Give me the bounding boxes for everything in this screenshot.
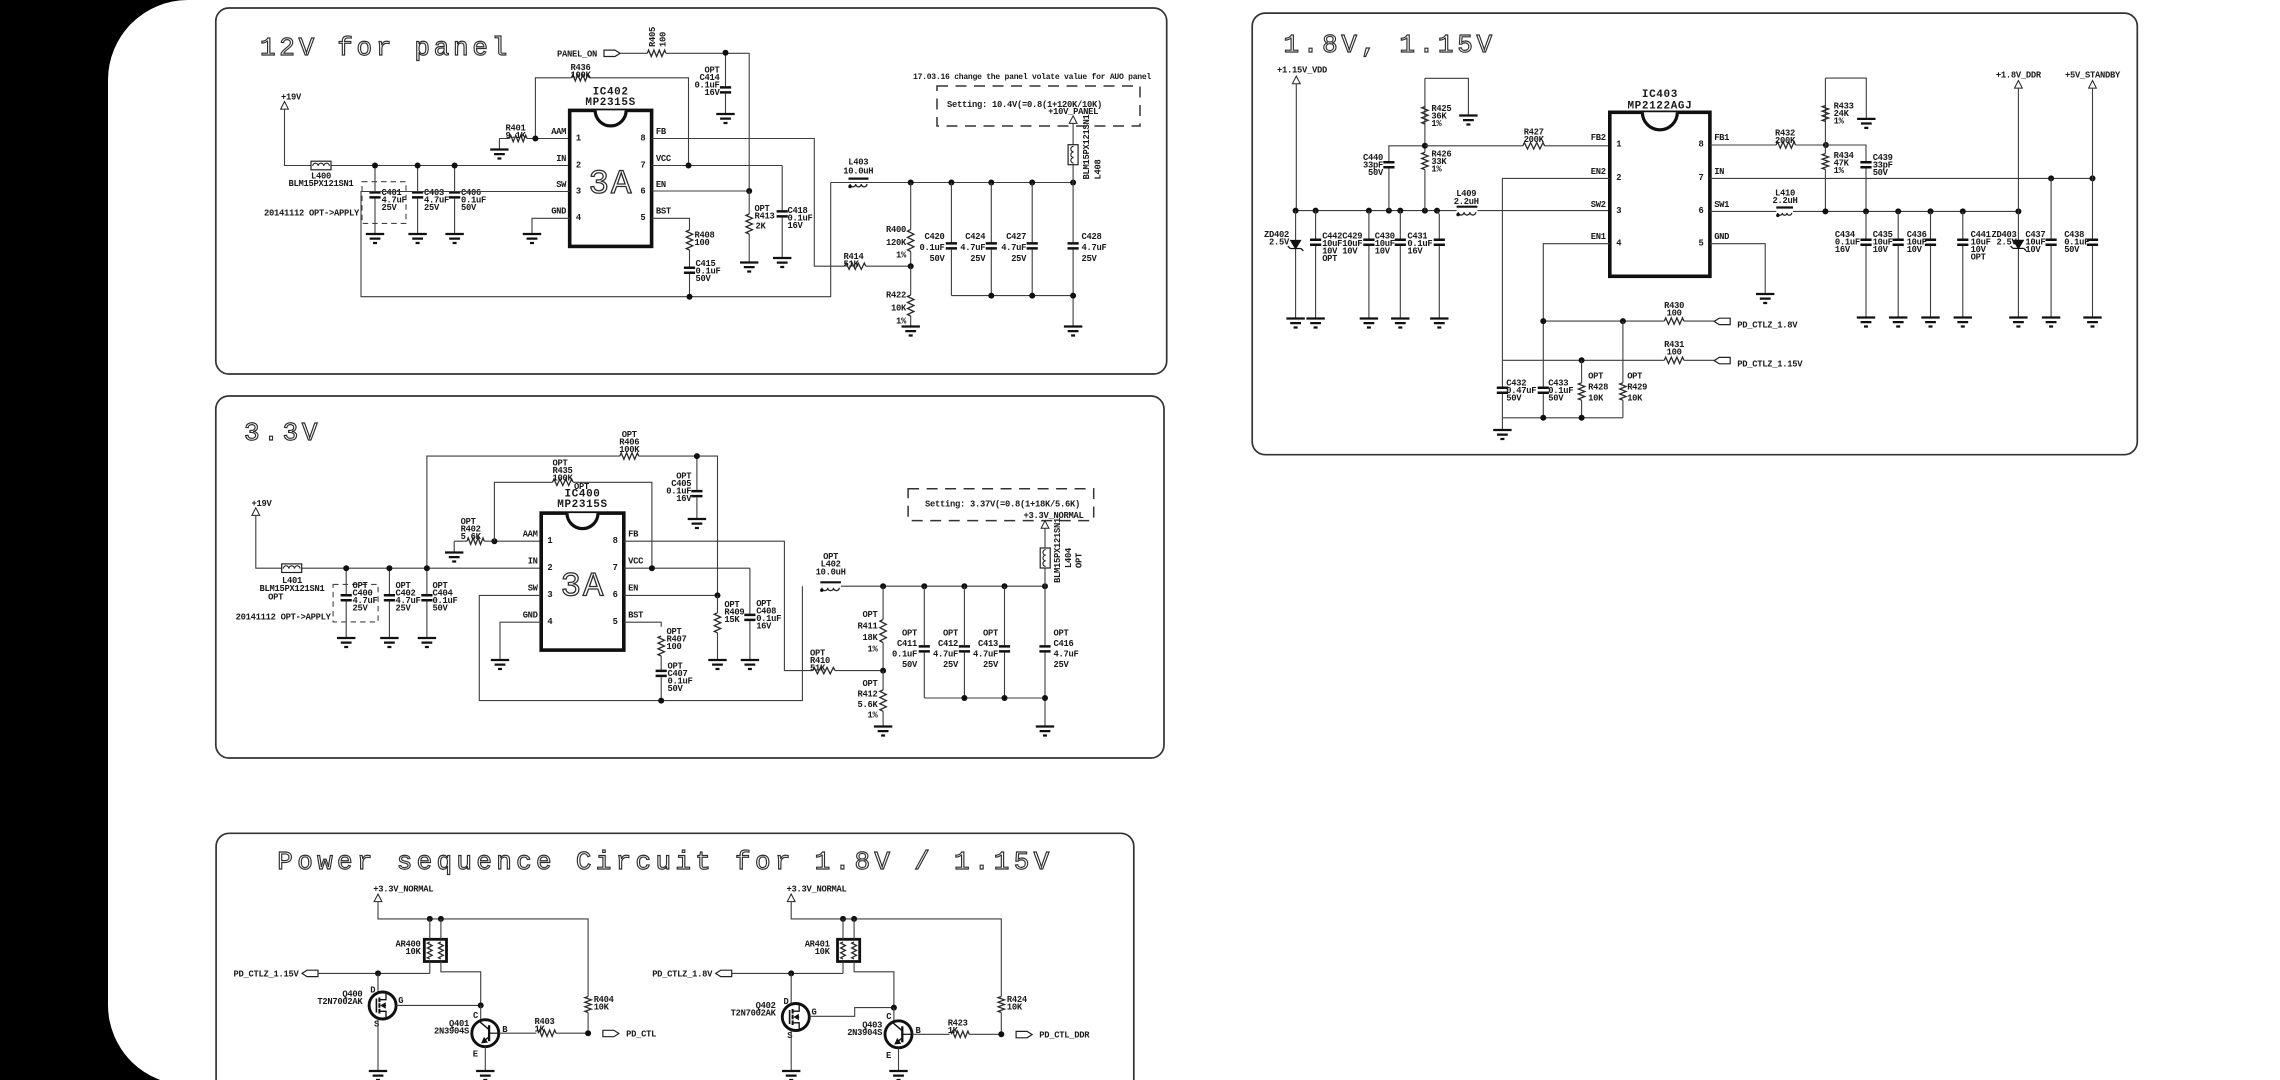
resistor R413 2K (OPT) EN pulldown	[748, 191, 750, 234]
svg-text:C412: C412	[938, 639, 958, 649]
capacitor C404 0.1uF (OPT)	[426, 568, 428, 638]
svg-text:SW2: SW2	[1591, 200, 1606, 210]
ground at IC400 GND	[491, 660, 509, 669]
capacitor C414 0.1uF (OPT)	[725, 53, 727, 114]
svg-text:C427: C427	[1006, 232, 1026, 242]
capacitor C433 0.1uF EN1 delay	[1542, 387, 1544, 418]
svg-text:16V: 16V	[1407, 246, 1423, 256]
svg-text:25V: 25V	[424, 203, 440, 213]
junction PANEL_ON/C414	[723, 50, 729, 56]
svg-text:50V: 50V	[2064, 245, 2080, 255]
svg-text:1%: 1%	[1834, 166, 1845, 176]
svg-text:2N3904S: 2N3904S	[847, 1028, 882, 1038]
svg-text:4.7uF: 4.7uF	[1001, 243, 1026, 253]
svg-text:16V: 16V	[676, 494, 692, 504]
svg-text:PD_CTL_DDR: PD_CTL_DDR	[1039, 1031, 1090, 1041]
svg-text:BLM15PX121SN1: BLM15PX121SN1	[1053, 518, 1063, 583]
net connector PD_CTLZ_1.8V	[716, 970, 732, 976]
svg-text:100: 100	[667, 642, 682, 652]
ground at Q400 source	[369, 1071, 387, 1080]
ferrite bead L400	[311, 161, 331, 170]
svg-text:OPT: OPT	[1627, 372, 1643, 382]
resistor R425 36K 1% FB2 upper to gnd loop	[1424, 78, 1426, 146]
resistor R431 100	[1664, 357, 1684, 363]
svg-text:25V: 25V	[396, 604, 412, 614]
svg-text:4.7uF: 4.7uF	[960, 243, 985, 253]
svg-text:3: 3	[576, 186, 581, 196]
junction BST/SW IC400	[658, 698, 664, 704]
svg-text:10V: 10V	[1873, 245, 1889, 255]
svg-text:R429: R429	[1627, 383, 1647, 393]
svg-text:OPT: OPT	[943, 629, 959, 639]
junction feedback tap	[908, 263, 914, 269]
svg-text:50V: 50V	[1873, 168, 1889, 178]
junction dots input rail 19V	[372, 163, 378, 169]
capacitor C436 10uF	[1930, 211, 1932, 317]
svg-text:PD_CTLZ_1.8V: PD_CTLZ_1.8V	[652, 970, 713, 980]
svg-text:1.8V, 1.15V: 1.8V, 1.15V	[1284, 30, 1496, 60]
svg-text:20141112 OPT->APPLY: 20141112 OPT->APPLY	[236, 613, 332, 623]
capacitor C411 0.1uF (OPT)	[923, 586, 925, 698]
IC402 MP2315S buck regulator	[570, 110, 652, 246]
svg-text:5: 5	[613, 617, 618, 627]
svg-text:10K: 10K	[406, 947, 422, 957]
junction EN	[746, 188, 752, 194]
wire PD_CTLZ_1.8V line	[732, 972, 843, 974]
svg-text:100K: 100K	[553, 473, 574, 483]
capacitor C401 (OPT)	[362, 182, 406, 224]
transistor Q400 T2N7002AK (N-MOSFET)	[377, 973, 379, 992]
svg-text:10V: 10V	[1375, 246, 1391, 256]
svg-text:50V: 50V	[1506, 394, 1522, 404]
resistor R400 120K 1% upper divider	[910, 183, 912, 267]
capacitor C429 10uF	[1368, 211, 1370, 319]
svg-text:T2N7002AK: T2N7002AK	[317, 997, 363, 1007]
svg-text:+1.8V_DDR: +1.8V_DDR	[1996, 71, 2042, 81]
junction dots 1.8V rail	[1822, 208, 1828, 214]
svg-text:2: 2	[547, 563, 552, 573]
svg-text:100K: 100K	[619, 445, 640, 455]
svg-text:100K: 100K	[571, 71, 592, 81]
svg-text:2N3904S: 2N3904S	[434, 1027, 469, 1037]
svg-text:BLM15PX121SN1: BLM15PX121SN1	[1082, 115, 1092, 180]
svg-text:EN: EN	[628, 584, 638, 594]
wire 3.3V cap ground rail	[924, 698, 1045, 727]
wire AAM pin stub	[535, 138, 569, 140]
wire EN stub IC400	[624, 594, 718, 596]
wire FB net to divider	[652, 139, 845, 267]
net connector PD_CTLZ_1.8V	[1714, 318, 1730, 324]
IC400 MP2315S buck regulator	[541, 513, 624, 650]
inductor L402 10.0uH (OPT)	[820, 581, 841, 583]
resistor R403 1K base	[499, 1032, 537, 1034]
svg-text:4.7uF: 4.7uF	[1054, 650, 1079, 660]
wire IN net from +5V standby	[1710, 177, 2093, 179]
svg-text:25V: 25V	[382, 203, 398, 213]
svg-text:G: G	[398, 996, 403, 1006]
svg-text:10K: 10K	[815, 947, 831, 957]
wire EN2 net	[1502, 178, 1609, 360]
junction drain (right)	[788, 970, 794, 976]
svg-text:2K: 2K	[756, 222, 767, 232]
svg-text:3: 3	[1616, 206, 1621, 216]
svg-text:E: E	[886, 1051, 891, 1061]
net connector PANEL_ON	[604, 50, 620, 56]
capacitor C438 0.1uF standby decoupling	[2092, 178, 2094, 317]
resistor R432 200K FB1 series	[1776, 142, 1795, 148]
svg-text:8: 8	[1699, 139, 1704, 149]
svg-text:4.7uF: 4.7uF	[973, 650, 998, 660]
svg-text:100: 100	[1667, 309, 1682, 319]
svg-text:25V: 25V	[1082, 254, 1098, 264]
power flag +3.3V_NORMAL	[1041, 521, 1049, 529]
svg-text:5.6K: 5.6K	[858, 700, 879, 710]
ground at R422	[902, 327, 920, 336]
resistor R411 18K 1% (OPT) upper divider	[882, 586, 884, 670]
wire AR leads (left)	[430, 919, 441, 974]
svg-text:1%: 1%	[896, 251, 907, 261]
svg-text:2: 2	[1616, 173, 1621, 183]
svg-text:1K: 1K	[948, 1026, 959, 1036]
svg-text:C416: C416	[1054, 639, 1074, 649]
svg-text:16V: 16V	[1835, 245, 1851, 255]
wire 3.3V rail (right)	[791, 902, 1001, 997]
inductor L409 2.2uH	[1457, 206, 1478, 208]
resistor R406 100K (OPT) enable divider top	[427, 456, 718, 595]
svg-text:OPT: OPT	[902, 629, 918, 639]
junction dot EN2 line	[1579, 357, 1585, 363]
svg-text:16V: 16V	[788, 221, 804, 231]
capacitor C432 0.47uF EN2 delay	[1501, 360, 1503, 418]
resistor R414 51K feedback	[845, 263, 866, 269]
wire AR leads (right)	[843, 919, 854, 974]
wire SW net IC400	[479, 586, 802, 700]
svg-text:20141112 OPT->APPLY: 20141112 OPT->APPLY	[264, 209, 360, 219]
ground at R433	[1857, 119, 1875, 128]
wire 1.8V output rail	[1710, 210, 2019, 212]
wire 10V panel output rail	[831, 182, 1073, 184]
wire AAM stub IC400	[494, 540, 541, 542]
capacitor C418 0.1uF VCC decoupling	[781, 166, 783, 259]
junction VCC	[686, 163, 692, 169]
svg-text:2.2uH: 2.2uH	[1773, 196, 1798, 206]
svg-text:100: 100	[1667, 348, 1682, 358]
svg-text:1%: 1%	[1431, 119, 1442, 129]
junction EN IC400	[715, 592, 721, 598]
svg-text:1%: 1%	[1431, 165, 1442, 175]
resistor R423 1K base	[912, 1033, 950, 1035]
svg-text:3A: 3A	[561, 569, 606, 607]
svg-text:7: 7	[1699, 173, 1704, 183]
svg-text:+5V_STANDBY: +5V_STANDBY	[2065, 71, 2121, 81]
ground at ZD403	[2009, 318, 2027, 327]
resistor R434 47K 1% FB1 to output	[1824, 145, 1826, 211]
capacitor C408 0.1uF (OPT) VCC decoupling	[749, 568, 751, 660]
svg-text:50V: 50V	[1548, 394, 1564, 404]
transistor Q402 T2N7002AK (N-MOSFET)	[790, 973, 792, 1003]
resistor R412 5.6K 1% (OPT) lower divider	[882, 671, 884, 727]
setting note dashed box 3.3V	[908, 489, 1094, 521]
wire emitter to ground (left)	[484, 1047, 486, 1071]
svg-text:25V: 25V	[943, 660, 959, 670]
resistor array AR400 10K	[424, 939, 446, 961]
svg-text:E: E	[473, 1050, 478, 1060]
svg-text:1%: 1%	[868, 645, 879, 655]
power flag +3.3V_NORMAL (right)	[787, 894, 795, 902]
resistor R409 15K (OPT) enable divider bottom	[717, 595, 719, 660]
svg-text:50V: 50V	[696, 274, 712, 284]
net connector PD_CTL	[603, 1030, 619, 1036]
svg-text:25V: 25V	[353, 604, 369, 614]
resistor R424 10K pull-up	[998, 997, 1004, 1013]
svg-text:PD_CTLZ_1.8V: PD_CTLZ_1.8V	[1737, 321, 1798, 331]
svg-text:R413: R413	[755, 212, 775, 222]
svg-text:50V: 50V	[930, 254, 946, 264]
svg-text:2.5V: 2.5V	[1997, 238, 2018, 248]
net connector PD_CTLZ_1.15V	[1714, 357, 1730, 363]
resistor R426 33K 1% FB2 lower	[1424, 146, 1426, 211]
junction dots on ground rail	[988, 293, 994, 299]
svg-text:AAM: AAM	[523, 530, 538, 540]
svg-text:+3.3V_NORMAL: +3.3V_NORMAL	[787, 885, 847, 895]
resistor R422 10K 1% lower divider	[910, 266, 912, 326]
wire emitter to ground (right)	[898, 1048, 900, 1071]
wire +19V input	[256, 515, 541, 568]
svg-text:+1.15V_VDD: +1.15V_VDD	[1277, 66, 1327, 76]
ground at EN network	[1493, 430, 1511, 439]
svg-text:2: 2	[576, 160, 581, 170]
capacitor C403	[417, 166, 419, 235]
ground at R425	[1459, 116, 1477, 125]
svg-text:FB: FB	[656, 127, 667, 137]
ground at R402	[445, 553, 463, 562]
capacitor C407 0.1uF (OPT) bootstrap	[660, 656, 662, 701]
net connector PD_CTLZ_1.15V	[302, 970, 318, 976]
svg-text:100: 100	[659, 32, 669, 47]
svg-text:IN: IN	[528, 557, 538, 567]
svg-text:18K: 18K	[863, 633, 879, 643]
svg-text:10K: 10K	[1627, 394, 1643, 404]
svg-text:OPT: OPT	[1588, 372, 1604, 382]
resistor R410 51K (OPT) feedback	[813, 667, 835, 673]
setting note dashed box	[937, 86, 1140, 126]
capacitor C439 33pF FB1 feedforward	[1826, 145, 1866, 161]
capacitor C405 0.1uF (OPT) enable filter	[696, 456, 698, 519]
svg-text:L404: L404	[1064, 547, 1074, 568]
wire +1.8V_DDR drop	[2017, 88, 2019, 317]
capacitor C400 4.7uF (OPT)	[333, 584, 378, 622]
svg-text:50V: 50V	[902, 660, 918, 670]
resistor R428 10K (OPT) EN2 pulldown	[1581, 360, 1583, 418]
svg-text:EN2: EN2	[1591, 167, 1606, 177]
svg-text:2.2uH: 2.2uH	[1454, 197, 1479, 207]
svg-text:3: 3	[547, 590, 552, 600]
svg-text:GND: GND	[1714, 232, 1729, 242]
svg-text:5: 5	[640, 213, 645, 223]
svg-text:25V: 25V	[983, 660, 999, 670]
ground at R409	[708, 660, 726, 669]
IC403 MP2122AGJ dual buck regulator	[1610, 112, 1710, 276]
transistor Q401 2N3904S (NPN)	[472, 1020, 499, 1047]
svg-text:1: 1	[1616, 139, 1621, 149]
svg-text:10K: 10K	[594, 1003, 610, 1013]
junction drain (left)	[375, 970, 381, 976]
capacitor C435 10uF	[1897, 211, 1899, 317]
junction dots EN1 line	[1540, 318, 1546, 324]
svg-text:L408: L408	[1094, 160, 1104, 180]
capacitor C427 4.7uF 25V	[1031, 183, 1033, 296]
resistor R427 200K FB2 series	[1425, 145, 1610, 147]
svg-text:1: 1	[547, 536, 552, 546]
resistor R433 24K 1% FB1 to gnd loop	[1824, 78, 1826, 145]
wire gate to collector (right)	[809, 1008, 894, 1017]
svg-text:R400: R400	[886, 225, 906, 235]
svg-text:2.5V: 2.5V	[1269, 238, 1290, 248]
junction FB1 divider	[1823, 142, 1829, 148]
svg-text:8: 8	[640, 133, 645, 143]
svg-text:8: 8	[613, 536, 618, 546]
svg-text:+19V: +19V	[281, 93, 302, 103]
capacitor C420 0.1uF 50V	[950, 183, 952, 296]
svg-text:C424: C424	[965, 232, 986, 242]
svg-text:IC403: IC403	[1642, 89, 1678, 101]
svg-text:BST: BST	[656, 207, 672, 217]
svg-text:0.1uF: 0.1uF	[892, 650, 917, 660]
svg-text:6: 6	[613, 590, 618, 600]
capacitor C441 10uF (OPT)	[1962, 211, 1964, 317]
wire 3.3V output rail	[841, 585, 1045, 587]
svg-text:R428: R428	[1588, 383, 1608, 393]
svg-text:OPT: OPT	[983, 629, 999, 639]
resistor array AR401 10K	[838, 939, 860, 961]
svg-text:4.7uF: 4.7uF	[1082, 243, 1107, 253]
wire 3.3V rail (left)	[378, 902, 588, 997]
ground at IC402 GND	[523, 234, 541, 243]
wire capacitor ground rail	[951, 296, 1073, 327]
svg-text:10V: 10V	[1907, 245, 1923, 255]
svg-text:SW1: SW1	[1714, 200, 1729, 210]
svg-text:PANEL_ON: PANEL_ON	[557, 50, 597, 60]
ground at output caps	[1064, 327, 1082, 336]
svg-text:MP2315S: MP2315S	[585, 97, 635, 109]
svg-text:VCC: VCC	[628, 557, 644, 567]
svg-text:EN1: EN1	[1591, 232, 1606, 242]
wire EN1 net	[1543, 244, 1610, 388]
svg-text:PD_CTLZ_1.15V: PD_CTLZ_1.15V	[234, 970, 300, 980]
svg-text:R411: R411	[858, 622, 878, 632]
svg-text:C428: C428	[1082, 232, 1102, 242]
resistor R407 100 (OPT) bootstrap	[624, 622, 661, 627]
svg-text:1%: 1%	[868, 711, 879, 721]
wire SW net	[361, 183, 831, 297]
svg-text:C411: C411	[897, 639, 917, 649]
capacitor C431 0.1uF	[1437, 211, 1439, 239]
wire source to ground (left)	[377, 1019, 379, 1071]
capacitor C430 10uF	[1399, 211, 1401, 319]
junction AAM IC400	[491, 538, 497, 544]
svg-text:OPT: OPT	[1075, 552, 1085, 568]
svg-text:25V: 25V	[970, 254, 986, 264]
junction feedback tap 3.3V	[880, 668, 886, 674]
resistor R404 10K pull-up	[585, 997, 591, 1013]
svg-text:6: 6	[640, 186, 645, 196]
svg-text:C413: C413	[978, 639, 998, 649]
capacitor C415 0.1uF bootstrap	[689, 250, 691, 297]
junction dots 3.3V rail	[880, 583, 886, 589]
power flag +1.15V_VDD	[1292, 76, 1300, 84]
svg-text:7: 7	[613, 563, 618, 573]
svg-text:OPT: OPT	[574, 482, 590, 492]
svg-text:12V for panel: 12V for panel	[260, 33, 511, 63]
wire PD_CTLZ_1.15V line	[318, 972, 430, 974]
svg-text:BST: BST	[628, 611, 644, 621]
junction dots on output rail	[908, 180, 914, 186]
svg-text:10V: 10V	[1342, 246, 1358, 256]
ground at R412	[874, 727, 892, 736]
capacitor C428 4.7uF 25V	[1072, 183, 1074, 296]
svg-text:9.1K: 9.1K	[506, 131, 527, 141]
ground at Q402 source	[782, 1071, 800, 1080]
wire source to ground (right)	[790, 1030, 792, 1071]
capacitor C406	[454, 166, 456, 235]
wire gate to collector (left)	[396, 1004, 481, 1006]
svg-text:4.7uF: 4.7uF	[933, 650, 958, 660]
svg-text:C420: C420	[925, 232, 945, 242]
capacitor C402 4.7uF (OPT)	[388, 568, 390, 638]
wire +5V_STANDBY drop	[2092, 88, 2094, 178]
svg-text:OPT: OPT	[863, 610, 879, 620]
capacitor C413 4.7uF (OPT)	[1004, 586, 1006, 698]
svg-text:200K: 200K	[1524, 135, 1545, 145]
zener diode ZD403 2.5V	[2014, 240, 2024, 248]
svg-text:200K: 200K	[1775, 136, 1796, 146]
ground at IC403 GND	[1756, 294, 1774, 303]
capacitor C442 10uF (OPT)	[1315, 211, 1317, 319]
junction dots AR pull-up (right)	[840, 916, 846, 922]
svg-text:+19V: +19V	[252, 499, 273, 509]
capacitor C440 33pF FB2 feedforward	[1389, 146, 1425, 161]
power flag +1.8V_DDR	[2015, 81, 2023, 89]
junction VCC IC400	[649, 565, 655, 571]
power flag +19V (3.3V section)	[252, 508, 260, 516]
resistor R405 100	[620, 53, 749, 191]
svg-text:BLM15PX121SN1: BLM15PX121SN1	[289, 179, 354, 189]
capacitor C434 0.1uF	[1865, 211, 1867, 317]
svg-text:D: D	[784, 997, 789, 1007]
svg-text:D: D	[370, 986, 375, 996]
zener diode ZD402 2.5V	[1295, 211, 1297, 319]
svg-text:0.1uF: 0.1uF	[920, 243, 945, 253]
capacitor C437 10uF standby decoupling	[2050, 178, 2052, 317]
svg-text:MP2122AGJ: MP2122AGJ	[1627, 101, 1692, 113]
inductor L410 2.2uH	[1776, 206, 1793, 208]
wire EN2 control line	[1502, 359, 1714, 361]
svg-text:IN: IN	[1714, 167, 1724, 177]
resistor R429 10K (OPT) EN1 pulldown	[1622, 321, 1624, 418]
ground at Q401 emitter	[476, 1071, 494, 1080]
svg-text:3.3V: 3.3V	[244, 418, 321, 448]
svg-text:SW: SW	[556, 180, 567, 190]
svg-text:1: 1	[576, 133, 581, 143]
svg-text:16V: 16V	[756, 622, 772, 632]
svg-text:+3.3V_NORMAL: +3.3V_NORMAL	[373, 885, 433, 895]
svg-text:50V: 50V	[668, 684, 684, 694]
wire +19V to IN	[285, 109, 570, 165]
resistor R402 5.6K (OPT)	[454, 541, 494, 552]
svg-text:120K: 120K	[886, 238, 907, 248]
junction PD_CTL (left)	[585, 1030, 591, 1036]
inductor L403 10.0uH	[849, 178, 869, 180]
